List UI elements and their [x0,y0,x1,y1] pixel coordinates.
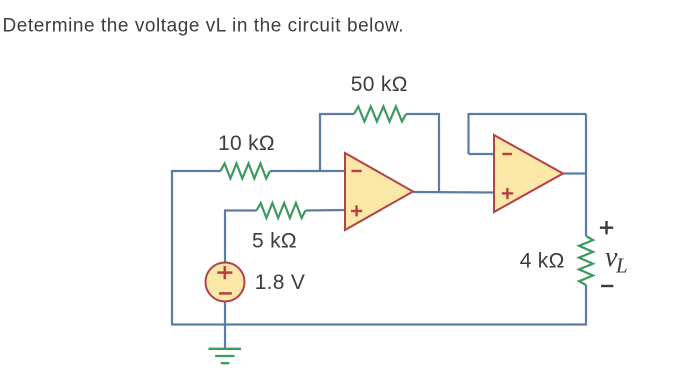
resistor 4 kOhm zigzag (vertical) [579,236,593,285]
wire: U2 output stub [563,172,587,174]
label plus polarity of vL [600,221,613,234]
resistor 10 kOhm zigzag [221,164,271,179]
svg-text:5 kΩ: 5 kΩ [252,230,297,253]
svg-text:50 kΩ: 50 kΩ [351,73,408,96]
resistor 5 kOhm zigzag [257,203,306,218]
wire: 5k to op-amp U1 non-inverting input [305,209,345,212]
wire: 10k to op-amp U1 inverting input [270,170,345,172]
wire: source bottom vertical to bottom rail [224,301,226,324]
wire: 5k branch left segment [224,209,257,211]
op-amp U2 [494,135,563,212]
wire: bottom rail [171,323,587,325]
svg-text:Determine the voltage vL in th: Determine the voltage vL in the circuit … [3,16,405,37]
wire: left vertical branch [171,170,173,324]
op-amp U1 [345,153,413,230]
label minus polarity of vL [601,285,613,287]
wire: source top vertical up to 5k branch [224,211,226,264]
wire: right vertical from feedback top down to 4k resistor [585,114,587,236]
voltage source V1 1.8 V [206,263,245,302]
wire: 10k input wire left segment [172,170,221,172]
resistor 50 kOhm zigzag [354,107,406,122]
svg-text:10 kΩ: 10 kΩ [218,132,275,155]
wire: U2 feedback stub to inverting input [469,153,495,155]
wire: 50k feedback top right segment [406,113,440,115]
svg-text:4 kΩ: 4 kΩ [520,250,565,273]
ground [209,349,242,363]
wire: U2 feedback left vertical [467,113,469,154]
wire: 50k feedback top left segment [319,113,354,115]
wire: U1 output to U2 non-inverting input [413,191,494,194]
svg-text:1.8 V: 1.8 V [255,271,306,294]
wire: ground stem [224,324,226,348]
wire: 50k feedback right vertical down to U1 output [438,114,440,192]
wire: 50k feedback left vertical [319,114,321,171]
wire: U2 feedback top rail [469,113,587,115]
svg-text:vL: vL [605,242,628,278]
wire: right vertical from 4k resistor to bottom rail [585,285,587,324]
